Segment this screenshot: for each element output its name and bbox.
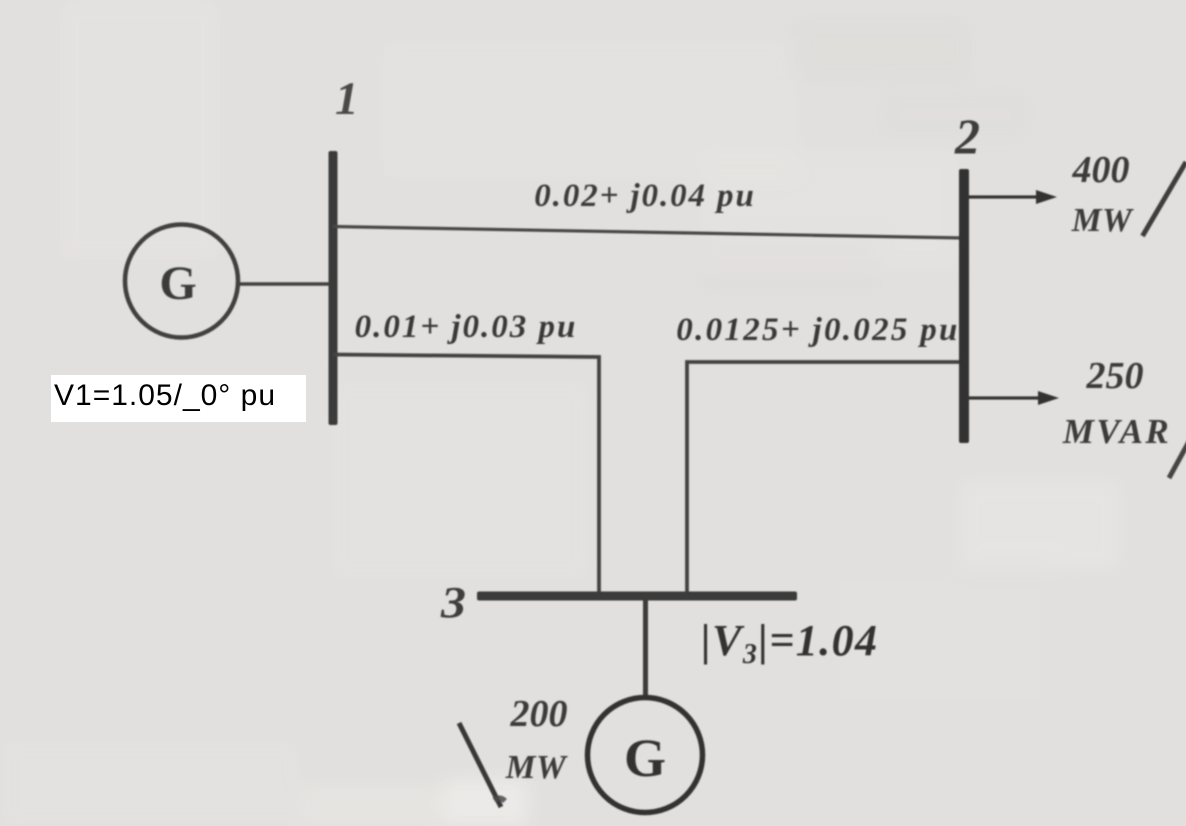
- svg-text:0.0125+ j0.025 pu: 0.0125+ j0.025 pu: [676, 312, 959, 348]
- svg-text:3: 3: [440, 578, 466, 627]
- load arrow Q (250 MVAR): [969, 396, 1043, 399]
- svg-text:|V3|=1.04: |V3|=1.04: [701, 616, 878, 670]
- svg-text:0.01+ j0.03 pu: 0.01+ j0.03 pu: [355, 309, 578, 345]
- backslash mark near 200 MW: [459, 723, 501, 807]
- wire G1 to bus 1: [240, 282, 331, 286]
- svg-text:0.02+ j0.04 pu: 0.02+ j0.04 pu: [534, 178, 755, 214]
- svg-text:V1=1.05/_0° pu: V1=1.05/_0° pu: [54, 379, 276, 412]
- svg-text:MVAR: MVAR: [1062, 412, 1171, 451]
- wire line 1-2: [333, 227, 963, 239]
- wire line 2-3: [687, 362, 963, 595]
- svg-text:2: 2: [954, 108, 980, 164]
- svg-text:MW: MW: [1071, 202, 1134, 239]
- generator G1 circle: [125, 225, 238, 338]
- svg-text:250: 250: [1086, 355, 1144, 397]
- bus 3 (horizontal bus bar): [477, 592, 797, 601]
- load arrow P (400 MW): [969, 195, 1041, 198]
- bus 2 (vertical bus bar): [959, 169, 969, 443]
- svg-text:400: 400: [1072, 149, 1130, 191]
- slash mark after MW: [1143, 162, 1186, 236]
- generator G2 circle: [588, 698, 703, 813]
- wire line 1-3 horizontal: [333, 355, 599, 596]
- svg-text:G: G: [159, 257, 196, 310]
- svg-text:G: G: [624, 728, 666, 788]
- svg-text:200: 200: [510, 693, 568, 735]
- bus 1 (vertical bus bar): [329, 151, 338, 425]
- smudge mark bottom left of G2: [494, 798, 505, 801]
- white annotation box: [51, 375, 306, 422]
- wire bus 3 to G2: [643, 599, 648, 699]
- svg-text:MW: MW: [505, 749, 568, 786]
- svg-text:1: 1: [335, 73, 359, 125]
- slash mark after MVAR: [1169, 436, 1186, 478]
